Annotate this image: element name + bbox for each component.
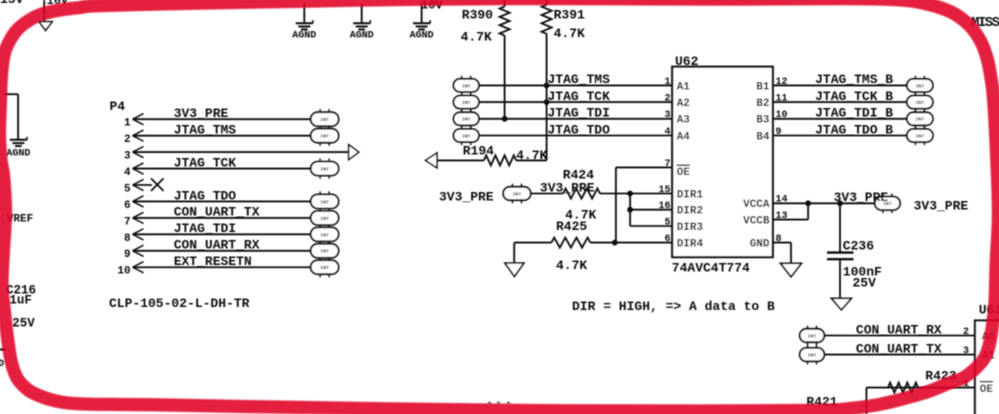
svg-text:C236: C236	[843, 239, 874, 254]
svg-text:10: 10	[117, 266, 130, 278]
svg-text:GND: GND	[750, 239, 770, 251]
svg-text:AGND: AGND	[350, 31, 374, 42]
svg-text:INT: INT	[320, 117, 329, 123]
svg-text:25V: 25V	[853, 275, 877, 290]
svg-text:INT: INT	[320, 134, 329, 140]
svg-text:2: 2	[124, 134, 131, 146]
svg-text:CLP-105-02-L-DH-TR: CLP-105-02-L-DH-TR	[109, 296, 250, 311]
svg-text:8: 8	[124, 233, 131, 245]
svg-text:4: 4	[124, 167, 131, 179]
svg-text:JTAG_TMS_B: JTAG_TMS_B	[815, 72, 893, 87]
svg-text:15V: 15V	[0, 0, 24, 7]
svg-text:INT: INT	[808, 353, 817, 359]
svg-text:INT: INT	[320, 232, 329, 238]
svg-text:CON_UART_RX: CON_UART_RX	[174, 238, 260, 253]
svg-text:INT: INT	[462, 83, 471, 89]
svg-text:3V3_PRE: 3V3_PRE	[174, 106, 229, 121]
svg-text:INT: INT	[320, 265, 329, 271]
svg-text:INT: INT	[320, 216, 329, 222]
svg-text:B4: B4	[756, 131, 770, 143]
svg-text:A4: A4	[677, 131, 691, 143]
svg-text:A1: A1	[677, 81, 691, 93]
svg-text:4.7K: 4.7K	[554, 26, 585, 41]
svg-text:5: 5	[124, 183, 131, 195]
svg-text:DIR1: DIR1	[677, 189, 704, 201]
svg-text:25V: 25V	[12, 316, 35, 330]
svg-text:3V3_PRE: 3V3_PRE	[834, 190, 889, 205]
svg-text:INT: INT	[916, 100, 925, 106]
svg-text:3V3_PRE: 3V3_PRE	[540, 180, 595, 195]
svg-text:74AVC4T774: 74AVC4T774	[672, 261, 750, 276]
svg-text:DIR3: DIR3	[677, 222, 704, 234]
svg-text:CON_UART_TX: CON_UART_TX	[174, 205, 260, 220]
svg-text:7: 7	[124, 216, 131, 228]
svg-text:OE: OE	[677, 167, 691, 179]
svg-text:EXT_RESETN: EXT_RESETN	[174, 254, 252, 269]
svg-text:INT: INT	[808, 333, 817, 339]
svg-text:R391: R391	[554, 8, 585, 23]
svg-text:INT: INT	[320, 166, 329, 172]
svg-text:1uF: 1uF	[9, 294, 32, 308]
svg-text:3: 3	[124, 151, 131, 163]
svg-text:R194: R194	[463, 144, 494, 159]
svg-text:INT: INT	[513, 191, 522, 197]
svg-text:1: 1	[664, 77, 670, 88]
svg-text:4.7K: 4.7K	[461, 30, 492, 45]
svg-text:6: 6	[124, 200, 131, 212]
svg-text:AGND: AGND	[292, 31, 316, 42]
svg-text:VCCA: VCCA	[743, 199, 770, 211]
svg-text:4.7K: 4.7K	[556, 258, 587, 273]
svg-text:JTAG_TDI: JTAG_TDI	[548, 106, 610, 121]
svg-text:JTAG_TDO: JTAG_TDO	[174, 188, 237, 203]
svg-text:R390: R390	[462, 8, 493, 23]
svg-text:INT: INT	[916, 133, 925, 139]
svg-text:OE: OE	[980, 384, 994, 396]
svg-text:2: 2	[963, 327, 969, 338]
svg-text:INT: INT	[916, 83, 925, 89]
svg-text:9: 9	[124, 249, 131, 261]
svg-text:ND: ND	[0, 359, 4, 370]
svg-text:A3: A3	[677, 115, 691, 127]
svg-text:JTAG_TCK_B: JTAG_TCK_B	[815, 89, 893, 104]
svg-text:B1: B1	[756, 81, 770, 93]
svg-text:3V3_PRE: 3V3_PRE	[914, 199, 969, 214]
svg-text:B3: B3	[756, 115, 770, 127]
svg-text:P4: P4	[110, 99, 126, 114]
svg-text:U62: U62	[675, 54, 699, 69]
svg-text:3V3_PRE: 3V3_PRE	[439, 190, 494, 205]
svg-text:INT: INT	[462, 117, 471, 123]
svg-text:INT: INT	[462, 100, 471, 106]
svg-text:2: 2	[664, 94, 670, 105]
svg-text:INT: INT	[462, 133, 471, 139]
svg-text:INT: INT	[320, 249, 329, 255]
svg-text:JTAG_TMS: JTAG_TMS	[174, 122, 237, 137]
svg-text:JTAG_TDO: JTAG_TDO	[548, 122, 611, 137]
svg-text:R425: R425	[556, 219, 587, 234]
svg-text:JTAG_TMS: JTAG_TMS	[548, 72, 611, 87]
svg-text:AGND: AGND	[410, 31, 434, 42]
svg-text:1: 1	[124, 118, 131, 130]
svg-text:DIR2: DIR2	[677, 206, 703, 218]
svg-text:AGND: AGND	[6, 149, 30, 160]
svg-text:DIR4: DIR4	[677, 239, 704, 251]
svg-text:INT: INT	[916, 117, 925, 123]
svg-text:VCCB: VCCB	[743, 216, 770, 228]
svg-text:A2: A2	[677, 98, 690, 110]
svg-text:CON_UART_RX: CON_UART_RX	[856, 322, 942, 337]
svg-text:3: 3	[664, 110, 670, 121]
svg-text:INT: INT	[320, 199, 329, 205]
svg-text:4.7K: 4.7K	[516, 148, 547, 163]
svg-text:3: 3	[963, 346, 969, 357]
svg-text:JTAG_TDO_B: JTAG_TDO_B	[815, 122, 893, 137]
svg-text:DIR = HIGH, => A data to B: DIR = HIGH, => A data to B	[572, 299, 775, 314]
svg-text:JTAG_TCK: JTAG_TCK	[174, 155, 237, 170]
svg-text:JTAG_TCK: JTAG_TCK	[548, 89, 611, 104]
svg-text:4: 4	[664, 127, 670, 138]
svg-text:JTAG_TDI: JTAG_TDI	[174, 221, 236, 236]
svg-text:CON_UART_TX: CON_UART_TX	[856, 341, 942, 356]
svg-text:B2: B2	[756, 98, 769, 110]
svg-text:JTAG_TDI_B: JTAG_TDI_B	[815, 106, 893, 121]
